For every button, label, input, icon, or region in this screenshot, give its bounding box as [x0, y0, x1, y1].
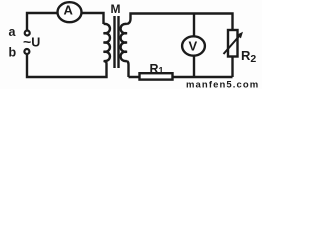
svg-text:manfen5.com: manfen5.com	[186, 80, 259, 90]
bottom rail of secondary circuit	[129, 76, 233, 78]
wire from terminal a up to ammeter	[27, 13, 57, 30]
svg-text:a: a	[9, 25, 17, 39]
wire secondary top to R2 top (secondary top rail)	[127, 14, 233, 30]
wire voltmeter top lead	[193, 14, 195, 37]
rheostat R2 body	[228, 30, 238, 57]
primary winding of transformer	[104, 24, 110, 61]
wire R2 bottom lead	[231, 57, 233, 77]
secondary winding of transformer	[121, 24, 127, 61]
rheostat R2 arrow shaft	[224, 34, 242, 54]
terminal b	[24, 49, 29, 54]
svg-text:~U: ~U	[23, 34, 40, 50]
svg-text:b: b	[9, 46, 17, 60]
transformer core line left	[113, 16, 115, 68]
wire secondary bottom to bottom rail	[127, 61, 129, 77]
rheostat R2 arrow head	[237, 32, 243, 39]
wire primary bottom, bottom-left return, terminal b lead	[27, 55, 107, 78]
transformer core line right	[117, 16, 119, 68]
terminal a	[25, 31, 30, 36]
voltmeter V circle	[182, 36, 205, 55]
wire ammeter to transformer primary top	[82, 13, 104, 24]
svg-text:V: V	[189, 38, 198, 53]
ammeter A circle	[58, 2, 82, 22]
svg-text:M: M	[111, 2, 121, 16]
resistor R1 body	[140, 73, 173, 79]
wire voltmeter bottom lead	[193, 56, 195, 77]
svg-text:A: A	[64, 3, 74, 18]
